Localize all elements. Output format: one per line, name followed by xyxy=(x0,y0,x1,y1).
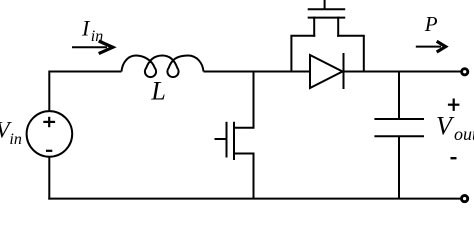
diode D1 cathode bar xyxy=(343,53,345,89)
transistor Q1 drain wire xyxy=(253,72,255,129)
capacitor C bottom plate xyxy=(374,135,424,137)
wire: bottom rail xyxy=(48,198,461,200)
svg-text:P: P xyxy=(424,12,438,36)
Q2 right leg wire xyxy=(363,36,365,72)
wire: source bottom to bottom rail xyxy=(48,157,50,200)
Q2 channel bar xyxy=(308,17,346,19)
capacitor C top lead xyxy=(398,72,400,120)
svg-text:V: V xyxy=(436,112,455,141)
diode D1 triangle xyxy=(310,55,343,88)
Q2 gate stub xyxy=(324,0,326,9)
capacitor C top plate xyxy=(374,118,424,120)
Q2 right shoulder xyxy=(337,35,365,37)
current arrow I_in xyxy=(72,41,113,54)
svg-text:out: out xyxy=(454,124,474,144)
power arrow P xyxy=(416,41,446,52)
wire: top rail diode to output terminal xyxy=(344,71,462,73)
voltage source V_in circle xyxy=(27,111,73,157)
Q1 source lead xyxy=(233,153,255,155)
svg-text:in: in xyxy=(91,28,103,45)
output plus sign xyxy=(448,99,460,111)
output minus sign xyxy=(451,157,457,159)
Q2 left lead xyxy=(313,17,315,37)
Q1 gate bar xyxy=(226,122,228,158)
Q2 left shoulder xyxy=(290,35,315,37)
transistor Q2 (high-side MOSFET, gate up) xyxy=(290,0,364,72)
output terminal top (open circle) xyxy=(462,69,468,75)
svg-text:in: in xyxy=(9,131,21,148)
wire: top-left corner from source to inductor xyxy=(49,72,121,111)
Q1 channel bar xyxy=(233,122,235,160)
Q2 right lead xyxy=(337,17,339,37)
output terminal bottom (open circle) xyxy=(462,196,468,202)
Q2 gate bar xyxy=(308,8,346,10)
source minus sign xyxy=(46,150,52,152)
wire: top rail inductor to diode xyxy=(204,71,311,73)
Q1 drain lead xyxy=(233,127,255,129)
Q2 left leg wire xyxy=(290,36,292,72)
inductor L xyxy=(122,56,204,78)
source plus sign xyxy=(43,117,55,127)
capacitor C bottom lead xyxy=(398,136,400,198)
transistor Q1 (low-side MOSFET) xyxy=(215,122,255,160)
svg-text:I: I xyxy=(81,16,91,41)
Q1 gate lead xyxy=(215,138,227,140)
transistor Q1 source wire xyxy=(253,154,255,199)
svg-text:L: L xyxy=(150,77,165,106)
